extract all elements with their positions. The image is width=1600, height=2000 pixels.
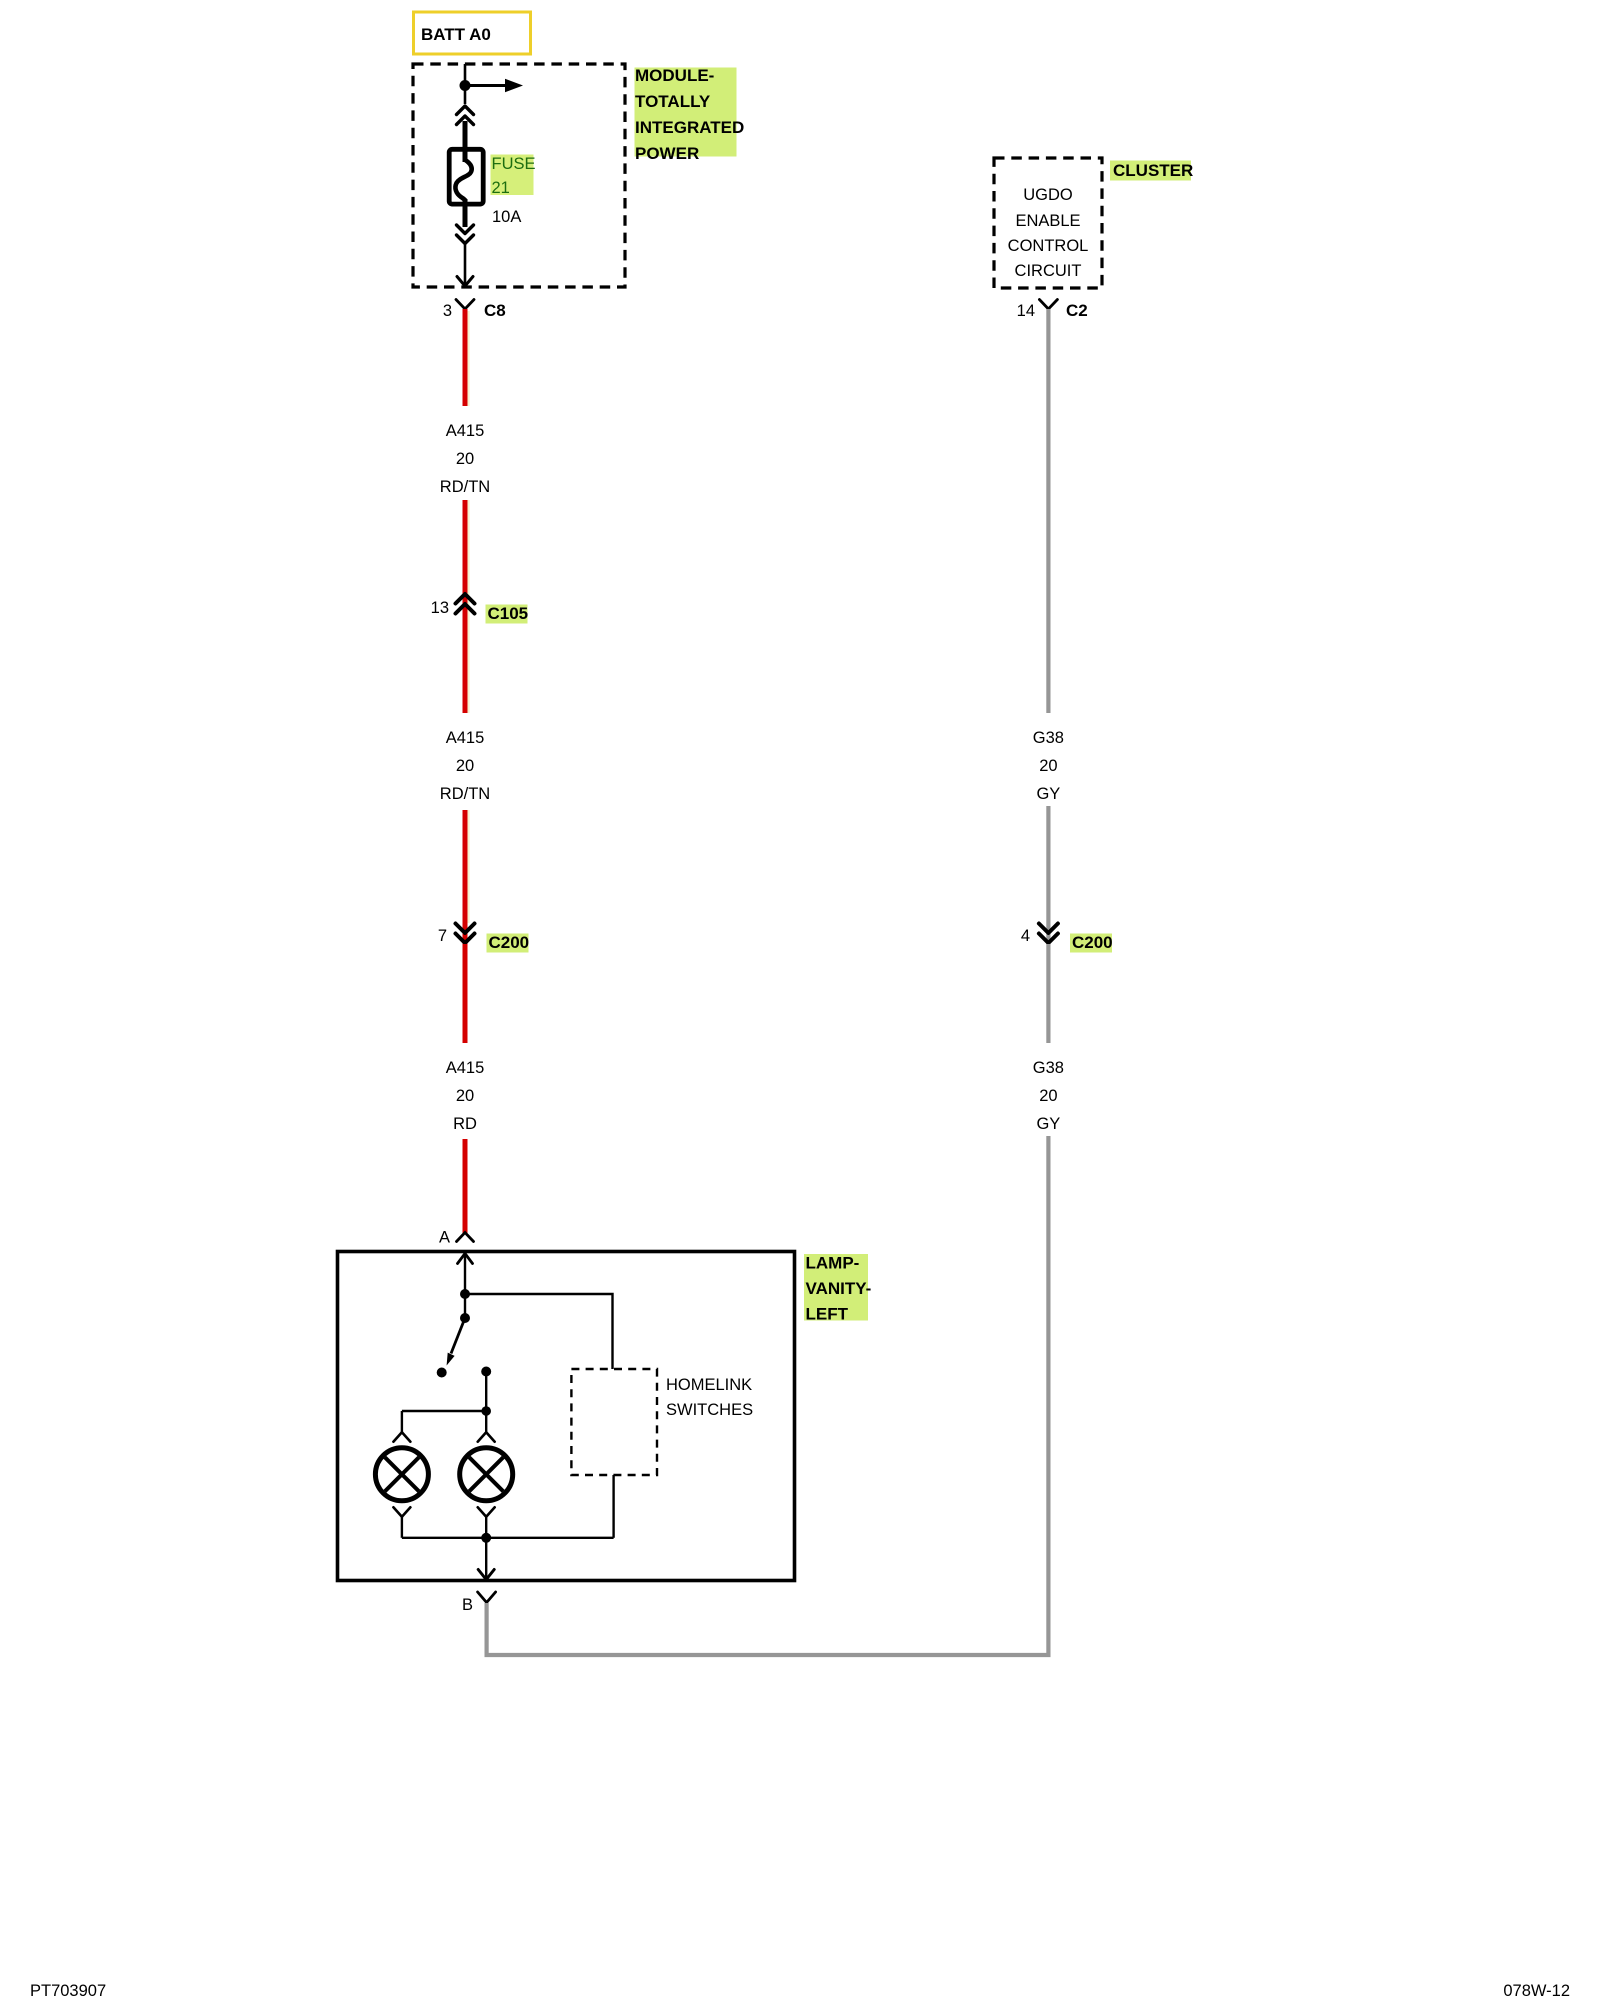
svg-text:10A: 10A (492, 208, 521, 226)
svg-text:SWITCHES: SWITCHES (666, 1401, 753, 1419)
svg-text:INTEGRATED: INTEGRATED (635, 118, 744, 137)
svg-text:20: 20 (456, 450, 474, 468)
svg-text:VANITY-: VANITY- (806, 1279, 872, 1298)
svg-text:A415: A415 (446, 422, 485, 440)
svg-text:LAMP-: LAMP- (806, 1254, 860, 1273)
svg-text:20: 20 (1039, 1087, 1057, 1105)
svg-text:LEFT: LEFT (806, 1305, 849, 1324)
svg-text:GY: GY (1036, 785, 1060, 803)
svg-text:20: 20 (456, 1087, 474, 1105)
svg-text:TOTALLY: TOTALLY (635, 92, 711, 111)
svg-text:C2: C2 (1066, 301, 1088, 320)
svg-text:UGDO: UGDO (1023, 186, 1073, 204)
svg-text:PT703907: PT703907 (30, 1982, 106, 2000)
svg-text:POWER: POWER (635, 144, 699, 163)
svg-text:RD: RD (453, 1115, 477, 1133)
svg-text:A415: A415 (446, 729, 485, 747)
svg-text:20: 20 (1039, 757, 1057, 775)
svg-text:CONTROL: CONTROL (1008, 237, 1089, 255)
svg-text:7: 7 (438, 927, 447, 945)
svg-text:13: 13 (431, 599, 449, 617)
svg-text:C200: C200 (1072, 933, 1113, 952)
svg-text:C200: C200 (489, 933, 530, 952)
svg-text:CLUSTER: CLUSTER (1113, 161, 1193, 180)
svg-text:A: A (439, 1229, 450, 1247)
svg-text:GY: GY (1036, 1115, 1060, 1133)
svg-text:HOMELINK: HOMELINK (666, 1376, 752, 1394)
svg-text:CIRCUIT: CIRCUIT (1015, 262, 1082, 280)
svg-text:4: 4 (1021, 927, 1030, 945)
svg-text:G38: G38 (1033, 729, 1064, 747)
svg-text:21: 21 (492, 179, 510, 197)
svg-text:A415: A415 (446, 1059, 485, 1077)
svg-text:14: 14 (1017, 302, 1035, 320)
svg-text:C105: C105 (488, 604, 529, 623)
svg-text:G38: G38 (1033, 1059, 1064, 1077)
svg-text:RD/TN: RD/TN (440, 478, 490, 496)
svg-text:3: 3 (443, 302, 452, 320)
svg-text:RD/TN: RD/TN (440, 785, 490, 803)
svg-text:078W-12: 078W-12 (1503, 1982, 1570, 2000)
svg-text:FUSE: FUSE (492, 155, 536, 173)
svg-text:C8: C8 (484, 301, 506, 320)
svg-text:MODULE-: MODULE- (635, 66, 714, 85)
svg-text:B: B (462, 1596, 473, 1614)
svg-text:20: 20 (456, 757, 474, 775)
svg-text:BATT A0: BATT A0 (421, 25, 491, 44)
svg-text:ENABLE: ENABLE (1015, 212, 1080, 230)
